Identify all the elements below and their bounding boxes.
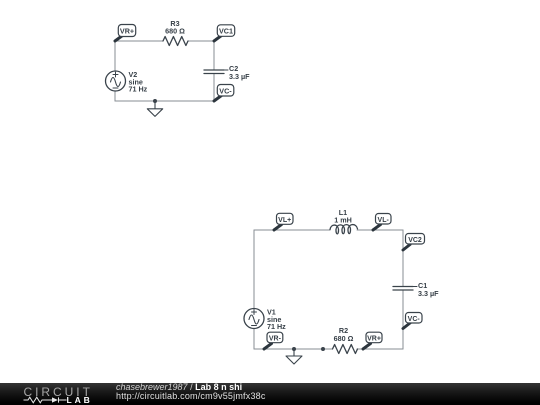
node flag VR+ (bottom circuit) bbox=[363, 332, 382, 349]
node flag VC- (top circuit) bbox=[214, 85, 234, 102]
footer bar bbox=[0, 383, 540, 405]
wire left side lower (V2 bottom to bottom wire) bbox=[114, 91, 116, 101]
wire L1 to top-right corner bbox=[357, 229, 403, 231]
ground (top circuit) bbox=[147, 101, 162, 116]
R3 value labels bbox=[165, 19, 185, 36]
junction dot (left of R2) bbox=[321, 347, 325, 351]
resistor R2 bbox=[333, 345, 358, 354]
inductor L1 bbox=[330, 225, 358, 234]
resistor R3 bbox=[163, 37, 188, 46]
node flag VL+ bbox=[274, 213, 293, 230]
ground (bottom circuit) bbox=[286, 349, 302, 364]
wire bottom left (V1 to R2) bbox=[254, 348, 333, 350]
junction dot (ground tee, top circuit) bbox=[153, 99, 157, 103]
capacitor C2 bbox=[204, 70, 228, 74]
wire left side upper (VR+ corner to V2 top) bbox=[114, 41, 116, 71]
svg-text:VR+: VR+ bbox=[367, 336, 381, 343]
wire top-left segment (VR+ corner to R3) bbox=[115, 40, 163, 42]
svg-text:VL-: VL- bbox=[378, 217, 390, 224]
svg-text:680 Ω: 680 Ω bbox=[165, 27, 185, 36]
node flag VR+ bbox=[115, 25, 136, 42]
svg-text:VC2: VC2 bbox=[408, 237, 422, 244]
V2 labels bbox=[129, 70, 148, 94]
svg-text:1 mH: 1 mH bbox=[334, 216, 352, 225]
svg-text:VR+: VR+ bbox=[120, 27, 134, 36]
node flag VC1 bbox=[214, 25, 235, 41]
wire R3 to VC1 corner bbox=[188, 40, 214, 42]
node flag VC2 bbox=[403, 234, 425, 251]
node flag VR- bbox=[264, 332, 283, 349]
node flag VL- bbox=[373, 214, 391, 231]
CircuitLab logo bbox=[0, 383, 110, 405]
wire right side upper (VC1 to C2 top plate) bbox=[213, 41, 215, 70]
wire left side lower (V1 to bottom wire) bbox=[253, 329, 255, 350]
svg-text:71 Hz: 71 Hz bbox=[129, 85, 148, 94]
L1 value labels bbox=[334, 208, 352, 225]
wire right side upper (corner to C1) bbox=[402, 230, 404, 287]
V1 labels bbox=[267, 308, 286, 332]
C2 value labels bbox=[229, 64, 250, 81]
svg-text:VR-: VR- bbox=[269, 336, 282, 343]
svg-text:LAB: LAB bbox=[67, 395, 91, 405]
R2 value labels bbox=[334, 326, 354, 343]
voltage source V1 bbox=[244, 309, 264, 329]
svg-text:680 Ω: 680 Ω bbox=[334, 334, 354, 343]
footer text bbox=[116, 382, 242, 392]
svg-text:VC-: VC- bbox=[219, 86, 232, 95]
svg-text:VL+: VL+ bbox=[278, 217, 291, 224]
svg-text:VC-: VC- bbox=[408, 316, 421, 323]
svg-text:3.3 µF: 3.3 µF bbox=[418, 289, 439, 298]
voltage source V2 bbox=[106, 71, 126, 91]
wire top (VL+ corner to L1) bbox=[254, 229, 330, 231]
wire bottom right (R2 to corner) bbox=[357, 348, 403, 350]
wire right side lower (C2 bottom plate to VC- corner) bbox=[213, 74, 215, 102]
node flag VC- (bottom circuit) bbox=[403, 313, 422, 329]
svg-text:71 Hz: 71 Hz bbox=[267, 322, 286, 331]
wire bottom (V2 to VC- corner) bbox=[115, 100, 214, 102]
C1 value labels bbox=[418, 281, 439, 298]
junction dot (ground tee, bottom circuit) bbox=[292, 347, 296, 351]
wire right side lower (C1 to bottom-right corner) bbox=[402, 290, 404, 349]
svg-text:3.3 µF: 3.3 µF bbox=[229, 72, 250, 81]
svg-text:VC1: VC1 bbox=[219, 27, 233, 36]
wire left side upper (corner to V1) bbox=[253, 230, 255, 309]
capacitor C1 bbox=[393, 287, 417, 291]
